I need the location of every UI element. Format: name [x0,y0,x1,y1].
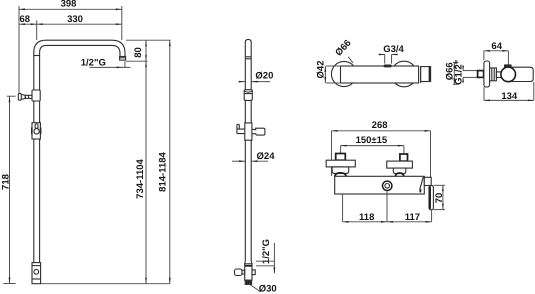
bottom right tab [252,270,255,275]
bottom holder circle [34,269,39,274]
svg-text:Ø20: Ø20 [255,70,273,81]
dimension 718 [7,95,16,97]
neck [496,72,501,78]
Ø66 dimension [453,62,459,64]
rail upper tube [244,59,246,90]
left knob circle Ø66 [331,61,356,86]
left inlet flange [326,160,355,167]
middle circle inner [385,184,390,189]
extension line left (x=19) [18,6,20,93]
svg-text:1/2"G: 1/2"G [81,57,106,68]
rail tube [244,100,246,123]
svg-text:134: 134 [501,91,518,102]
bottom threaded fitting 1/2"G [245,280,251,284]
riser coupling [32,90,40,101]
slider holder block [32,123,40,139]
lever dark bar [419,189,421,192]
extension line riser center (x=36.7) [36,21,38,41]
bottom holder fitting [32,263,41,284]
extension line arm end (x=121.8) [121,6,123,40]
svg-text:330: 330 [67,14,83,25]
right knob circle [391,61,417,87]
right inlet square [400,154,408,161]
svg-text:814-1184: 814-1184 [158,151,169,191]
svg-text:80: 80 [133,47,144,58]
wall disc dark edge [429,186,431,209]
wall disc right [429,185,433,209]
G3/4 port nub [384,65,392,68]
bottom left knob [242,270,245,274]
svg-text:Ø30: Ø30 [259,284,277,294]
rail lower tube [244,140,246,261]
arm end cap 1/2"G [120,57,126,61]
svg-text:1/2"G: 1/2"G [261,239,272,264]
svg-text:Ø24: Ø24 [257,151,276,162]
svg-text:718: 718 [0,174,11,190]
svg-text:268: 268 [372,120,388,131]
dimension 68 [19,23,122,25]
dimension 330 [116,23,122,25]
knob cylinder [508,67,533,81]
svg-text:734-1104: 734-1104 [135,158,146,198]
svg-text:68: 68 [20,14,31,25]
dimension 398 [19,8,122,10]
left inlet dome [335,173,346,176]
right inlet dome [395,173,403,176]
dimension 734-1104 [145,61,147,284]
slider right tab [40,127,42,134]
label Ø30 with leader [249,284,261,292]
baseline bottom [41,283,170,285]
knob circle (side) [501,67,516,82]
outlet dark edge [429,67,431,82]
body cap ring [420,66,422,83]
mixer body top view [335,176,425,194]
dimension 134 [483,87,485,100]
shower arm inner contour [40,45,120,90]
extension line pipe top right [126,39,171,41]
mixer body [341,66,419,83]
slider block side view [245,123,252,140]
slider left tab [31,127,33,134]
svg-text:G3/4: G3/4 [383,44,404,55]
slider inner detail [35,124,38,128]
right inlet flange [387,161,413,168]
left inlet mid block [332,167,349,174]
dimension 268 [332,130,431,132]
slider right knob [252,128,265,135]
left inlet square [336,154,346,161]
extension line cap bottom [126,60,148,62]
rail coupling [244,90,252,101]
wall nipple square G1/2 [478,71,484,78]
wall flange disc [484,61,490,87]
outlet port dark cap [504,64,512,67]
middle circle outer [383,181,392,190]
dimension 118 / 117 [342,194,344,222]
wall bracket knob [18,93,21,100]
outlet cap [421,67,431,82]
bottom union dark band [245,265,252,267]
bottom union block [245,264,252,280]
dimension 814-1184 [169,40,171,284]
slider left hook handle [237,124,245,133]
riser pipe lower segment [33,139,35,263]
nut stack [490,68,497,81]
svg-text:398: 398 [61,0,77,10]
dimension 64 [484,50,509,52]
shower arm outer contour [34,40,125,90]
lever slant line [420,177,424,190]
dimension 70 [434,184,445,186]
bottom union transition [244,261,247,264]
riser pipe upper segment [33,101,35,123]
arm joint line [34,55,40,57]
right inlet mid block [393,168,406,174]
rail top cap [245,39,251,58]
dimension 80 [145,40,147,61]
svg-text:117: 117 [405,212,420,223]
right connector block [424,177,431,185]
G3/4 dimension [379,54,385,56]
G1/2 dimension [462,66,464,71]
svg-text:118: 118 [359,212,374,223]
svg-text:150±15: 150±15 [356,135,388,146]
slider circle [34,129,39,134]
dimension 150±15 [341,145,404,147]
svg-text:70: 70 [434,193,445,204]
